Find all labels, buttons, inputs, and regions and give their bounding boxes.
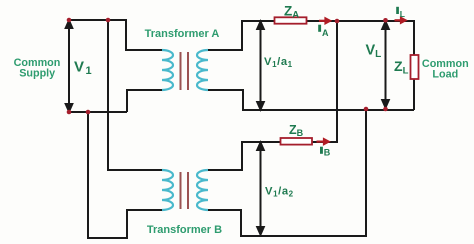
svg-text:Transformer B: Transformer B bbox=[147, 224, 222, 236]
svg-text:B: B bbox=[324, 148, 331, 158]
svg-text:Supply: Supply bbox=[19, 68, 55, 80]
svg-text:A: A bbox=[322, 28, 329, 38]
svg-text:Transformer A: Transformer A bbox=[145, 28, 220, 40]
svg-text:L: L bbox=[400, 9, 405, 19]
svg-text:Load: Load bbox=[432, 69, 458, 81]
